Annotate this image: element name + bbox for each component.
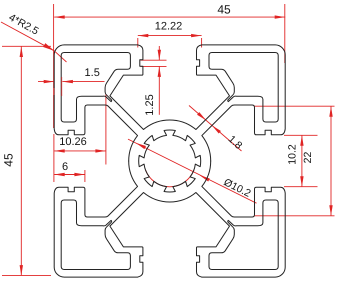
dimension line 1.5 left part (wall thickness) xyxy=(38,81,54,83)
extension line lower (22 dim) xyxy=(255,215,335,217)
arrowhead top of 1.25 dim xyxy=(158,50,161,61)
extension line top edge (left 45 dim) xyxy=(2,45,51,47)
arrowhead bottom of left 45 dim xyxy=(20,265,23,276)
dimension line 1.25 upper part (notch) xyxy=(158,46,160,60)
arrowhead upper-left (dia 10.2) xyxy=(136,143,146,149)
extension tick over outer wall (1.5 dim) xyxy=(53,88,55,95)
extension tick over cavity wall (1.5 dim) xyxy=(61,77,63,96)
inner cavity top-left chamber xyxy=(61,53,130,123)
svg-text:6: 6 xyxy=(62,161,68,173)
extension line right (6 dim) xyxy=(84,170,86,182)
arrowhead bottom of 10.2 dim xyxy=(300,176,303,187)
svg-text:10.26: 10.26 xyxy=(59,136,87,148)
extension line upper (10.2 dim) xyxy=(284,134,318,136)
svg-text:45: 45 xyxy=(217,3,231,17)
arrowhead right of 12.22 dim xyxy=(191,34,202,37)
svg-text:45: 45 xyxy=(2,153,16,167)
dimension line 10.26 (slot depth) xyxy=(54,150,106,152)
arrowhead left of top 45 dim xyxy=(54,15,64,18)
dimension line 1.8 (web thickness) xyxy=(189,106,242,152)
arrowhead right of top 45 dim xyxy=(275,15,286,18)
extension line bottom edge (left 45 dim) xyxy=(2,274,51,276)
extension line upper (1.25 dim) xyxy=(141,59,167,61)
extension line right edge (top 45 dim) xyxy=(284,4,286,63)
arrowhead left of 6 dim xyxy=(54,173,64,176)
central castellated bore xyxy=(139,130,201,192)
arrowhead left of 10.26 dim xyxy=(54,149,64,152)
arrowhead of 4*R2.5 leader xyxy=(43,43,54,51)
profile outline bottom-right quadrant xyxy=(170,161,285,277)
dimension line 6 (lip width) xyxy=(54,174,85,176)
dimension line 1.25 lower part xyxy=(158,66,160,114)
svg-text:10.2: 10.2 xyxy=(287,144,299,165)
extension line right (12.22 dim) xyxy=(201,38,203,48)
arrowhead top of 22 dim xyxy=(329,106,332,117)
extension line left edge (top 45 dim) xyxy=(53,4,55,128)
extension line across left slot opening xyxy=(53,134,55,182)
dimension line 45 (top width) xyxy=(54,16,285,18)
arrowhead bottom of 22 dim xyxy=(329,205,332,216)
leader line diameter 10.2 bore xyxy=(128,139,257,203)
arrowhead outer wall (1.5 dim) xyxy=(44,80,55,83)
svg-text:12.22: 12.22 xyxy=(155,20,183,32)
profile outline bottom-left quadrant xyxy=(54,161,170,277)
arrowhead left of 12.22 dim xyxy=(138,34,149,37)
profile outline top-left quadrant (outer boundary, slot, web, ring arc) xyxy=(54,45,170,161)
red arc on bore bottom xyxy=(145,170,193,187)
extension line left (12.22 dim) xyxy=(137,38,139,48)
arrowhead right of 6 dim xyxy=(74,173,85,176)
inner cavity bottom-left chamber xyxy=(61,200,130,270)
dimension line 22 (chamber spacing) xyxy=(330,106,332,216)
svg-text:1.5: 1.5 xyxy=(85,67,100,79)
arrowhead upper (1.8 dim) xyxy=(197,112,206,120)
dimension line 1.5 right part xyxy=(62,81,104,83)
arrowhead top of left 45 dim xyxy=(20,47,23,58)
arrowhead lower (1.8 dim) xyxy=(212,125,221,133)
arrowhead bottom of 1.25 dim xyxy=(158,66,161,77)
arrowhead right of 10.26 dim xyxy=(95,149,106,152)
profile outline top-right quadrant xyxy=(170,45,285,161)
svg-text:22: 22 xyxy=(302,152,314,164)
extension line upper (22 dim) xyxy=(255,105,335,107)
svg-text:1.25: 1.25 xyxy=(144,94,156,115)
extension line lower (1.25 dim) xyxy=(141,65,167,67)
dimension line 45 (left height) xyxy=(20,47,22,276)
extension line right (10.26 dim) xyxy=(105,94,107,165)
inner cavity bottom-right chamber xyxy=(209,200,278,270)
arrowhead inner wall (1.5 dim) xyxy=(62,80,73,83)
arrowhead top of 10.2 dim xyxy=(300,135,303,146)
arrowhead lower-right (dia 10.2) xyxy=(200,175,210,181)
dimension line 12.22 (top slot) xyxy=(138,35,202,37)
dimension line 10.2 (right slot opening) xyxy=(301,135,303,186)
inner cavity top-right chamber xyxy=(209,53,278,123)
leader line 4*R2.5 corner radius xyxy=(1,22,54,51)
extension line lower (10.2 dim) xyxy=(284,186,318,188)
